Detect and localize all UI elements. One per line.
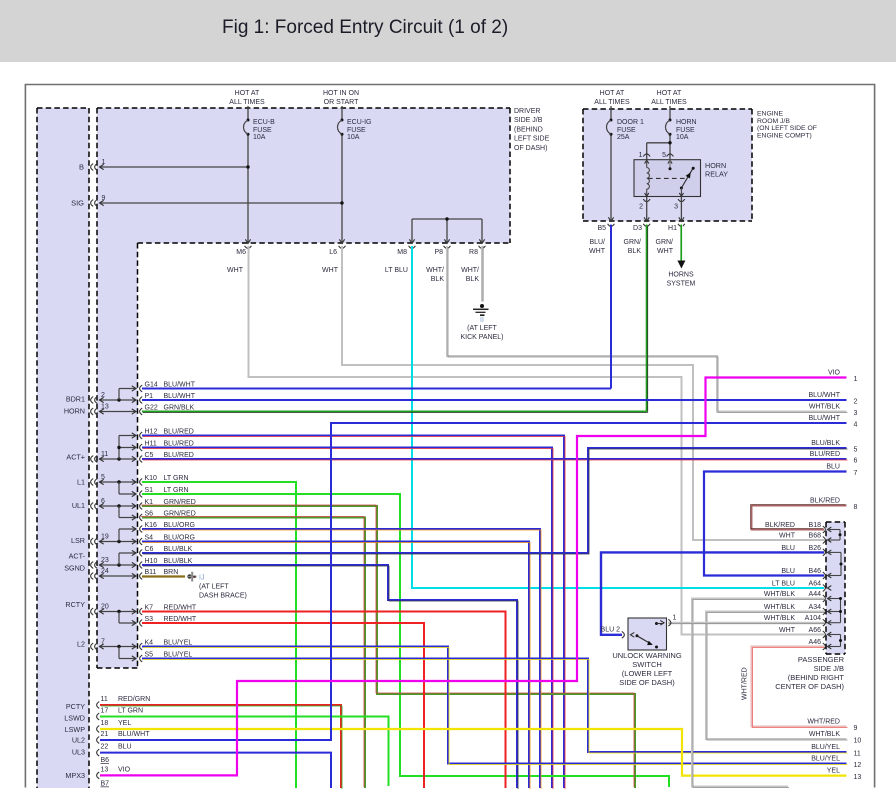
svg-text:6: 6: [854, 458, 858, 465]
node relay pin 5: [662, 152, 673, 159]
svg-text:WHT: WHT: [779, 533, 796, 540]
svg-text:II: II: [480, 317, 484, 324]
svg-text:10A: 10A: [253, 134, 266, 141]
svg-text:OF DASH): OF DASH): [514, 145, 547, 152]
wire UL2 BLU/WHT: [100, 423, 847, 740]
svg-text:1: 1: [854, 376, 858, 383]
svg-text:RED/WHT: RED/WHT: [164, 616, 197, 623]
relay switch contact: [648, 160, 695, 197]
wire ECU-B fuse to M6: [247, 136, 249, 244]
svg-text:LSWD: LSWD: [64, 714, 85, 723]
svg-text:13: 13: [854, 774, 862, 781]
svg-text:WHT/RED: WHT/RED: [742, 667, 749, 700]
svg-text:H1: H1: [668, 225, 677, 232]
svg-text:YEL: YEL: [118, 720, 131, 727]
passenger side J/B dashed border: [826, 522, 845, 654]
fuse DOOR 1 25A: [607, 106, 644, 141]
svg-text:BLU/RED: BLU/RED: [164, 452, 194, 459]
svg-text:GRN/: GRN/: [624, 239, 642, 246]
svg-text:B26: B26: [809, 545, 822, 552]
svg-text:9: 9: [102, 195, 106, 202]
wire D3 GRN/BLK: [647, 225, 648, 413]
svg-text:L1: L1: [77, 478, 85, 487]
svg-text:PASSENGER: PASSENGER: [798, 655, 845, 664]
svg-text:UL2: UL2: [72, 736, 85, 745]
svg-text:BLU/WHT: BLU/WHT: [164, 393, 196, 400]
svg-text:R8: R8: [469, 249, 478, 256]
svg-text:BLU: BLU: [118, 744, 132, 751]
svg-text:1: 1: [673, 615, 677, 622]
wire B11 BRN: [142, 575, 185, 577]
svg-text:A66: A66: [809, 627, 822, 634]
label HOT AT ALL TIMES (HORN): [651, 90, 687, 106]
wire HORN fuse to relay junction: [647, 136, 672, 160]
wire H1 GRN/WHT to horns system: [677, 225, 685, 269]
wire M6 WHT: [249, 246, 825, 635]
wire switch BLU: [601, 552, 824, 634]
node relay pin 1: [639, 152, 651, 159]
node R8 exit: [469, 239, 485, 256]
pin 13 MPX3 VIO: [97, 766, 131, 778]
svg-text:B: B: [79, 163, 84, 172]
svg-text:BLU/WHT: BLU/WHT: [809, 415, 841, 422]
svg-text:BLU/YEL: BLU/YEL: [811, 756, 840, 763]
pin 18 LSWP YEL: [97, 720, 132, 732]
label GRN/WHT (H1): [656, 239, 674, 255]
ECU pin name labels: [64, 395, 86, 781]
svg-text:RED/GRN: RED/GRN: [118, 696, 150, 703]
wire C5 BLU/RED: [142, 459, 848, 460]
svg-text:WHT/BLK: WHT/BLK: [764, 604, 795, 611]
label HORN RELAY: [705, 161, 728, 179]
svg-text:11: 11: [101, 451, 108, 458]
svg-text:B5: B5: [597, 225, 606, 232]
svg-text:UNLOCK WARNING: UNLOCK WARNING: [612, 651, 681, 660]
label PASSENGER SIDE J/B: [775, 655, 844, 691]
svg-text:BLU/RED: BLU/RED: [810, 451, 840, 458]
svg-text:BLU/WHT: BLU/WHT: [809, 392, 841, 399]
svg-text:G22: G22: [145, 404, 158, 411]
svg-text:P8: P8: [434, 249, 443, 256]
passenger J/B pin arcs arrows and labels: [764, 522, 831, 650]
svg-text:BLK/RED: BLK/RED: [765, 522, 795, 529]
svg-text:22: 22: [101, 744, 109, 751]
svg-text:K10: K10: [145, 475, 158, 482]
svg-text:S5: S5: [145, 651, 154, 658]
svg-text:S1: S1: [145, 487, 154, 494]
unlock warning switch box: [628, 618, 667, 650]
svg-text:WHT: WHT: [657, 248, 674, 255]
node B connector arcs: [91, 164, 98, 171]
svg-text:6: 6: [101, 498, 105, 505]
engine room J/B dashed border: [583, 109, 752, 221]
svg-text:ACT+: ACT+: [66, 453, 85, 462]
svg-text:S3: S3: [145, 616, 154, 623]
wire S5 BLU/YEL: [142, 659, 848, 754]
svg-text:1: 1: [639, 152, 643, 159]
wire H11 BLU/RED: [142, 448, 553, 790]
svg-text:5: 5: [101, 474, 105, 481]
svg-text:HORNS: HORNS: [668, 272, 694, 279]
svg-text:A64: A64: [809, 581, 822, 588]
svg-text:H11: H11: [145, 440, 157, 447]
svg-text:WHT: WHT: [589, 248, 606, 255]
svg-text:BLU/YEL: BLU/YEL: [164, 639, 193, 646]
svg-text:(ON LEFT SIDE OF: (ON LEFT SIDE OF: [757, 125, 817, 132]
svg-text:BLU/RED: BLU/RED: [164, 440, 194, 447]
engine room J/B box fill: [583, 109, 752, 221]
svg-text:GRN/: GRN/: [656, 239, 674, 246]
svg-text:M6: M6: [236, 249, 246, 256]
svg-text:B46: B46: [809, 568, 822, 575]
label BLU/WHT (B5): [589, 239, 606, 255]
svg-text:WHT/BLK: WHT/BLK: [764, 615, 795, 622]
svg-text:BLU/ORG: BLU/ORG: [164, 534, 196, 541]
svg-text:LT BLU: LT BLU: [772, 581, 795, 588]
svg-text:ENGINE COMPT): ENGINE COMPT): [757, 132, 812, 139]
wire R8 WHT/BLK to ground: [482, 246, 483, 302]
pin 6 UL1 to K1/S6: [91, 498, 136, 520]
wire B5 BLU/WHT: [610, 225, 612, 389]
wire PCTY RED/GRN: [100, 705, 342, 789]
svg-text:LSR: LSR: [71, 536, 85, 545]
svg-text:RED/WHT: RED/WHT: [164, 604, 197, 611]
passenger J/B internal jumpers: [829, 530, 843, 647]
svg-text:25A: 25A: [617, 134, 630, 141]
svg-text:CENTER OF DASH): CENTER OF DASH): [775, 682, 844, 691]
ground IJ (at left dash brace): [187, 572, 247, 600]
svg-text:ROOM J/B: ROOM J/B: [757, 118, 790, 125]
node M8 exit: [397, 239, 415, 256]
svg-text:ALL TIMES: ALL TIMES: [229, 99, 265, 106]
svg-text:C5: C5: [145, 452, 154, 459]
svg-text:UL3: UL3: [72, 748, 85, 757]
svg-text:SWITCH: SWITCH: [632, 660, 662, 669]
right edge pin labels: [807, 370, 861, 782]
svg-text:A44: A44: [809, 591, 822, 598]
svg-text:BLK/RED: BLK/RED: [810, 498, 840, 505]
wire C6 BLU/BLK: [142, 448, 848, 554]
wire S6 GRN/RED: [141, 517, 365, 789]
wire A46 WHT/RED: [752, 647, 848, 728]
ECU box dashed border: [37, 108, 89, 788]
svg-text:B68: B68: [809, 533, 822, 540]
svg-text:M8: M8: [397, 249, 407, 256]
svg-text:ENGINE: ENGINE: [757, 111, 784, 118]
svg-text:12: 12: [854, 762, 862, 769]
svg-text:LT BLU: LT BLU: [385, 267, 408, 274]
svg-text:L6: L6: [329, 249, 337, 256]
svg-text:BLU: BLU: [781, 568, 795, 575]
svg-text:FUSE: FUSE: [617, 127, 636, 134]
wire A44 WHT/BLK: [692, 599, 825, 788]
svg-text:13: 13: [101, 404, 109, 411]
svg-text:BLU: BLU: [826, 464, 840, 471]
svg-text:9: 9: [854, 725, 858, 732]
svg-text:HORN: HORN: [676, 119, 697, 126]
svg-text:BLU: BLU: [781, 545, 795, 552]
pin 11 PCTY RED/GRN: [97, 696, 151, 708]
svg-text:BLU 2: BLU 2: [601, 627, 621, 634]
title bar: [0, 0, 896, 62]
wire P1 BLU/WHT: [142, 399, 847, 401]
svg-text:PCTY: PCTY: [66, 702, 85, 711]
node P8 exit: [434, 239, 450, 256]
svg-text:ECU-IG: ECU-IG: [347, 119, 372, 126]
label GRN/BLK (D3): [624, 239, 642, 255]
svg-text:10: 10: [854, 738, 862, 745]
svg-text:ACT-: ACT-: [69, 552, 86, 561]
ECU box fill: [37, 108, 89, 788]
svg-text:BRN: BRN: [164, 569, 179, 576]
svg-text:19: 19: [101, 534, 109, 541]
wire pin SIG to ECU-IG feed: [100, 195, 344, 206]
svg-text:11: 11: [101, 696, 108, 703]
svg-text:2: 2: [639, 204, 643, 211]
wire S3 RED/WHT: [142, 623, 424, 788]
svg-text:FUSE: FUSE: [347, 127, 366, 134]
pin 7 L2 to K4/S5: [91, 639, 136, 662]
svg-text:FUSE: FUSE: [676, 127, 695, 134]
strip connector arcs and labels: [140, 381, 197, 662]
svg-text:10A: 10A: [347, 134, 360, 141]
wire pin7 BLU: [704, 472, 847, 576]
svg-text:SYSTEM: SYSTEM: [667, 281, 696, 288]
node L6 exit: [329, 239, 345, 256]
pin 13 HORN to G22: [91, 404, 136, 415]
pin 17 LSWD LT GRN: [97, 708, 143, 720]
wire K1 GRN/RED: [141, 505, 635, 788]
wire pin B to ECU-B feed: [100, 159, 250, 170]
svg-text:10A: 10A: [676, 134, 689, 141]
svg-text:1: 1: [102, 159, 106, 166]
svg-text:2: 2: [101, 392, 105, 399]
svg-text:IJ: IJ: [199, 575, 204, 582]
svg-text:DOOR 1: DOOR 1: [617, 119, 644, 126]
svg-text:(BEHIND: (BEHIND: [514, 126, 543, 133]
svg-text:K16: K16: [145, 522, 158, 529]
svg-text:S4: S4: [145, 534, 154, 541]
svg-text:18: 18: [101, 720, 109, 727]
svg-text:WHT: WHT: [322, 267, 339, 274]
svg-text:BLU/BLK: BLU/BLK: [164, 558, 193, 565]
pin 5 L1 to K10/S1: [91, 474, 136, 497]
svg-text:P1: P1: [145, 393, 154, 400]
node H1 exit: [668, 217, 685, 232]
svg-text:24: 24: [101, 568, 109, 575]
node relay pin 3: [674, 197, 685, 221]
svg-text:13: 13: [101, 766, 109, 773]
wire P8 WHT/BLK: [447, 246, 848, 413]
svg-text:BLU/YEL: BLU/YEL: [164, 651, 193, 658]
node relay pin 2: [639, 197, 650, 221]
wire ECU-IG fuse to L6: [341, 136, 343, 244]
svg-text:H12: H12: [145, 428, 158, 435]
svg-text:WHT/BLK: WHT/BLK: [809, 731, 840, 738]
pin 2 BDR1 to G14/P1: [91, 386, 136, 404]
wire DOOR1 fuse to B5 exit: [610, 136, 612, 222]
svg-text:SIG: SIG: [71, 199, 84, 208]
label UNLOCK WARNING SWITCH: [612, 651, 681, 687]
wire K4 BLU/YEL: [142, 647, 848, 765]
wire S4 BLU/ORG: [142, 542, 530, 790]
label ENGINE ROOM J/B: [757, 111, 817, 140]
wire G14 BLU/WHT: [142, 388, 611, 390]
wire MPX3 VIO: [100, 378, 847, 776]
svg-text:HOT AT: HOT AT: [235, 90, 260, 97]
svg-text:(LOWER LEFT: (LOWER LEFT: [622, 669, 673, 678]
fuse HORN 10A: [666, 106, 697, 141]
wire K7 RED/WHT: [142, 612, 506, 789]
wire A34 WHT/BLK: [706, 612, 848, 741]
svg-text:G14: G14: [145, 381, 158, 388]
svg-text:GRN/BLK: GRN/BLK: [164, 404, 195, 411]
svg-text:2: 2: [854, 399, 858, 406]
svg-text:BLK: BLK: [628, 248, 642, 255]
ground II (at left kick panel): [460, 304, 503, 341]
svg-text:A104: A104: [805, 615, 821, 622]
svg-text:23: 23: [101, 557, 109, 564]
wire L6 WHT: [342, 246, 824, 540]
wire H12 BLU/RED: [142, 436, 565, 790]
svg-text:17: 17: [101, 708, 109, 715]
svg-text:BLK: BLK: [466, 276, 480, 283]
wire H10 BLU/BLK: [142, 565, 518, 789]
fuse ECU-IG 10A: [338, 106, 372, 141]
svg-text:WHT/: WHT/: [461, 267, 479, 274]
svg-text:BLU/ORG: BLU/ORG: [164, 522, 196, 529]
svg-text:(BEHIND RIGHT: (BEHIND RIGHT: [788, 673, 845, 682]
wire S1 LT GRN: [142, 494, 669, 787]
wire K16 BLU/ORG: [142, 529, 541, 789]
svg-text:RCTY: RCTY: [65, 600, 85, 609]
svg-text:LT GRN: LT GRN: [164, 475, 189, 482]
wire G22 GRN/BLK: [142, 412, 648, 413]
svg-text:SIDE OF DASH): SIDE OF DASH): [619, 678, 675, 687]
node B5 exit: [597, 217, 614, 232]
label HORNS SYSTEM: [667, 272, 696, 288]
svg-text:B18: B18: [809, 522, 822, 529]
svg-text:20: 20: [101, 604, 109, 611]
svg-text:4: 4: [854, 422, 858, 429]
svg-text:D3: D3: [633, 225, 642, 232]
fuse ECU-B 10A: [244, 106, 276, 141]
label WHT/BLK (R8): [461, 267, 479, 283]
wire LSWD LT GRN: [100, 717, 389, 787]
svg-text:WHT/RED: WHT/RED: [807, 719, 840, 726]
svg-text:BLU/BLK: BLU/BLK: [811, 440, 840, 447]
ECU inner connector strip fill: [97, 243, 138, 668]
svg-text:B6: B6: [101, 757, 110, 764]
svg-text:ECU-B: ECU-B: [253, 119, 275, 126]
svg-text:K7: K7: [145, 604, 154, 611]
label HOT AT ALL TIMES (ECU-B): [229, 90, 265, 106]
svg-text:3: 3: [674, 204, 678, 211]
horn relay U1 box: [634, 160, 701, 197]
wire M8/P8/R8 jumper bracket: [412, 217, 482, 243]
svg-text:3: 3: [854, 410, 858, 417]
svg-text:SGND: SGND: [64, 564, 85, 573]
node D3 exit: [633, 217, 650, 232]
svg-text:KICK PANEL): KICK PANEL): [460, 334, 503, 341]
svg-text:WHT/BLK: WHT/BLK: [809, 404, 840, 411]
label HOT AT ALL TIMES (DOOR 1): [594, 90, 630, 106]
svg-text:WHT/: WHT/: [426, 267, 444, 274]
svg-text:A34: A34: [809, 604, 822, 611]
pin 22 UL3 BLU: [97, 744, 132, 756]
label HOT IN ON OR START (ECU-IG): [323, 90, 359, 106]
svg-text:DRIVER: DRIVER: [514, 108, 540, 115]
svg-text:WHT/BLK: WHT/BLK: [764, 591, 795, 598]
node M6 exit: [236, 239, 251, 256]
svg-text:Fig 1: Forced Entry Circuit (1: Fig 1: Forced Entry Circuit (1 of 2): [222, 17, 508, 38]
svg-text:MPX3: MPX3: [65, 771, 85, 780]
pin 23 ACT- to C6/H10: [91, 550, 136, 568]
pin 19 LSR to K16/S4: [91, 526, 136, 545]
svg-text:HOT IN ON: HOT IN ON: [323, 90, 359, 97]
label DRIVER SIDE J/B: [514, 108, 550, 152]
svg-text:C6: C6: [145, 546, 154, 553]
svg-text:BLU/WHT: BLU/WHT: [118, 731, 150, 738]
svg-text:DASH BRACE): DASH BRACE): [199, 593, 247, 600]
svg-text:SIDE J/B: SIDE J/B: [514, 117, 543, 124]
driver side J/B dashed border: [97, 108, 510, 668]
svg-text:FUSE: FUSE: [253, 127, 272, 134]
svg-text:21: 21: [101, 731, 109, 738]
svg-text:11: 11: [854, 751, 861, 758]
svg-text:BLU/RED: BLU/RED: [164, 428, 194, 435]
wire LSWP YEL: [100, 729, 847, 776]
relay coil: [645, 160, 650, 197]
svg-text:YEL: YEL: [827, 768, 840, 775]
svg-text:B7: B7: [101, 781, 110, 788]
svg-text:LEFT SIDE: LEFT SIDE: [514, 136, 550, 143]
svg-text:WHT: WHT: [779, 627, 796, 634]
svg-text:BLU/YEL: BLU/YEL: [811, 744, 840, 751]
svg-text:H10: H10: [145, 558, 158, 565]
svg-text:LSWP: LSWP: [65, 725, 86, 734]
wire A104 WHT/BLK: [668, 623, 825, 624]
svg-text:(AT LEFT: (AT LEFT: [467, 325, 497, 332]
svg-text:VIO: VIO: [828, 370, 841, 377]
svg-text:5: 5: [662, 152, 666, 159]
svg-text:VIO: VIO: [118, 766, 131, 773]
driver side J/B box fill: [97, 108, 510, 243]
svg-text:LT GRN: LT GRN: [118, 708, 143, 715]
svg-text:BDR1: BDR1: [66, 395, 85, 404]
svg-text:7: 7: [101, 639, 105, 646]
svg-text:BLU/WHT: BLU/WHT: [164, 381, 196, 388]
svg-text:7: 7: [854, 470, 858, 477]
wire pin8 BLK/RED: [751, 505, 847, 530]
wire UL3 BLU: [100, 753, 331, 788]
pin 11 ACT+ to H12/H11/C5: [91, 433, 136, 463]
unlock warning switch internals: [622, 615, 677, 649]
label WHT/BLK (P8): [426, 267, 444, 283]
svg-text:LT GRN: LT GRN: [164, 487, 189, 494]
svg-text:UL1: UL1: [72, 501, 85, 510]
svg-text:OR START: OR START: [324, 99, 359, 106]
pin 20 RCTY to K7/S3: [91, 604, 136, 626]
svg-text:K4: K4: [145, 639, 154, 646]
svg-text:WHT: WHT: [227, 267, 244, 274]
svg-text:SIDE J/B: SIDE J/B: [814, 664, 844, 673]
svg-text:RELAY: RELAY: [705, 170, 728, 179]
svg-text:A46: A46: [809, 639, 822, 646]
svg-text:HOT AT: HOT AT: [657, 90, 682, 97]
pin 24 SGND to B11: [91, 568, 136, 579]
node SIG connector arcs: [91, 200, 98, 207]
